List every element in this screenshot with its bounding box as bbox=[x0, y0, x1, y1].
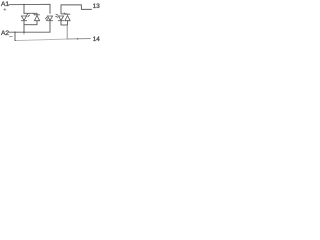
wire vertical to LED bbox=[23, 5, 25, 14]
wire drop from A2 rail to bottom rail bbox=[15, 32, 16, 40]
wire zener V5 bottom bbox=[67, 21, 69, 25]
photodiode V4 (arrows into left side) bbox=[55, 14, 64, 21]
wire bottom connector right pair bbox=[61, 24, 68, 26]
wire bottom connector pair bbox=[24, 24, 38, 26]
svg-text:14: 14 bbox=[93, 36, 100, 43]
wire zener bottom to connector bbox=[36, 21, 38, 25]
wire output top rail 13 bbox=[61, 5, 92, 14]
wire bottom common rail (faint) bbox=[16, 39, 67, 41]
wire V5 down to bottom rail bbox=[66, 25, 68, 39]
node junction at x=24 top bbox=[23, 4, 25, 6]
node small junction on bottom rail bbox=[77, 38, 79, 40]
wire LED cathode down to A2 rail bbox=[23, 21, 25, 33]
polarity minus bbox=[9, 36, 12, 38]
zener diode V2 (pointing up) bbox=[33, 13, 39, 21]
svg-text:13: 13 bbox=[93, 3, 100, 10]
wire stub below junction bbox=[23, 32, 25, 34]
wire V3 cathode down, corner into A2 rail bbox=[49, 21, 51, 33]
wire A1 top rail bbox=[8, 4, 50, 14]
polarity plus bbox=[4, 8, 7, 11]
LED V1 (arrows upper right) bbox=[21, 13, 30, 20]
wire top connector right pair bbox=[61, 13, 68, 15]
LED V3 (arrows lower left) bbox=[45, 16, 53, 21]
svg-text:A1: A1 bbox=[1, 1, 9, 8]
node junction at (15,32) bbox=[14, 31, 16, 33]
svg-text:A2: A2 bbox=[1, 30, 9, 37]
wire top connector LED to zener bbox=[24, 13, 37, 15]
zener diode V5 (pointing up) bbox=[64, 13, 70, 21]
wire A2 rail bbox=[9, 31, 51, 33]
wire photodiode cathode to bottom connector bbox=[60, 21, 62, 25]
wire bottom rail right segment bbox=[67, 38, 91, 41]
node junction at (24,32) bbox=[23, 32, 25, 34]
